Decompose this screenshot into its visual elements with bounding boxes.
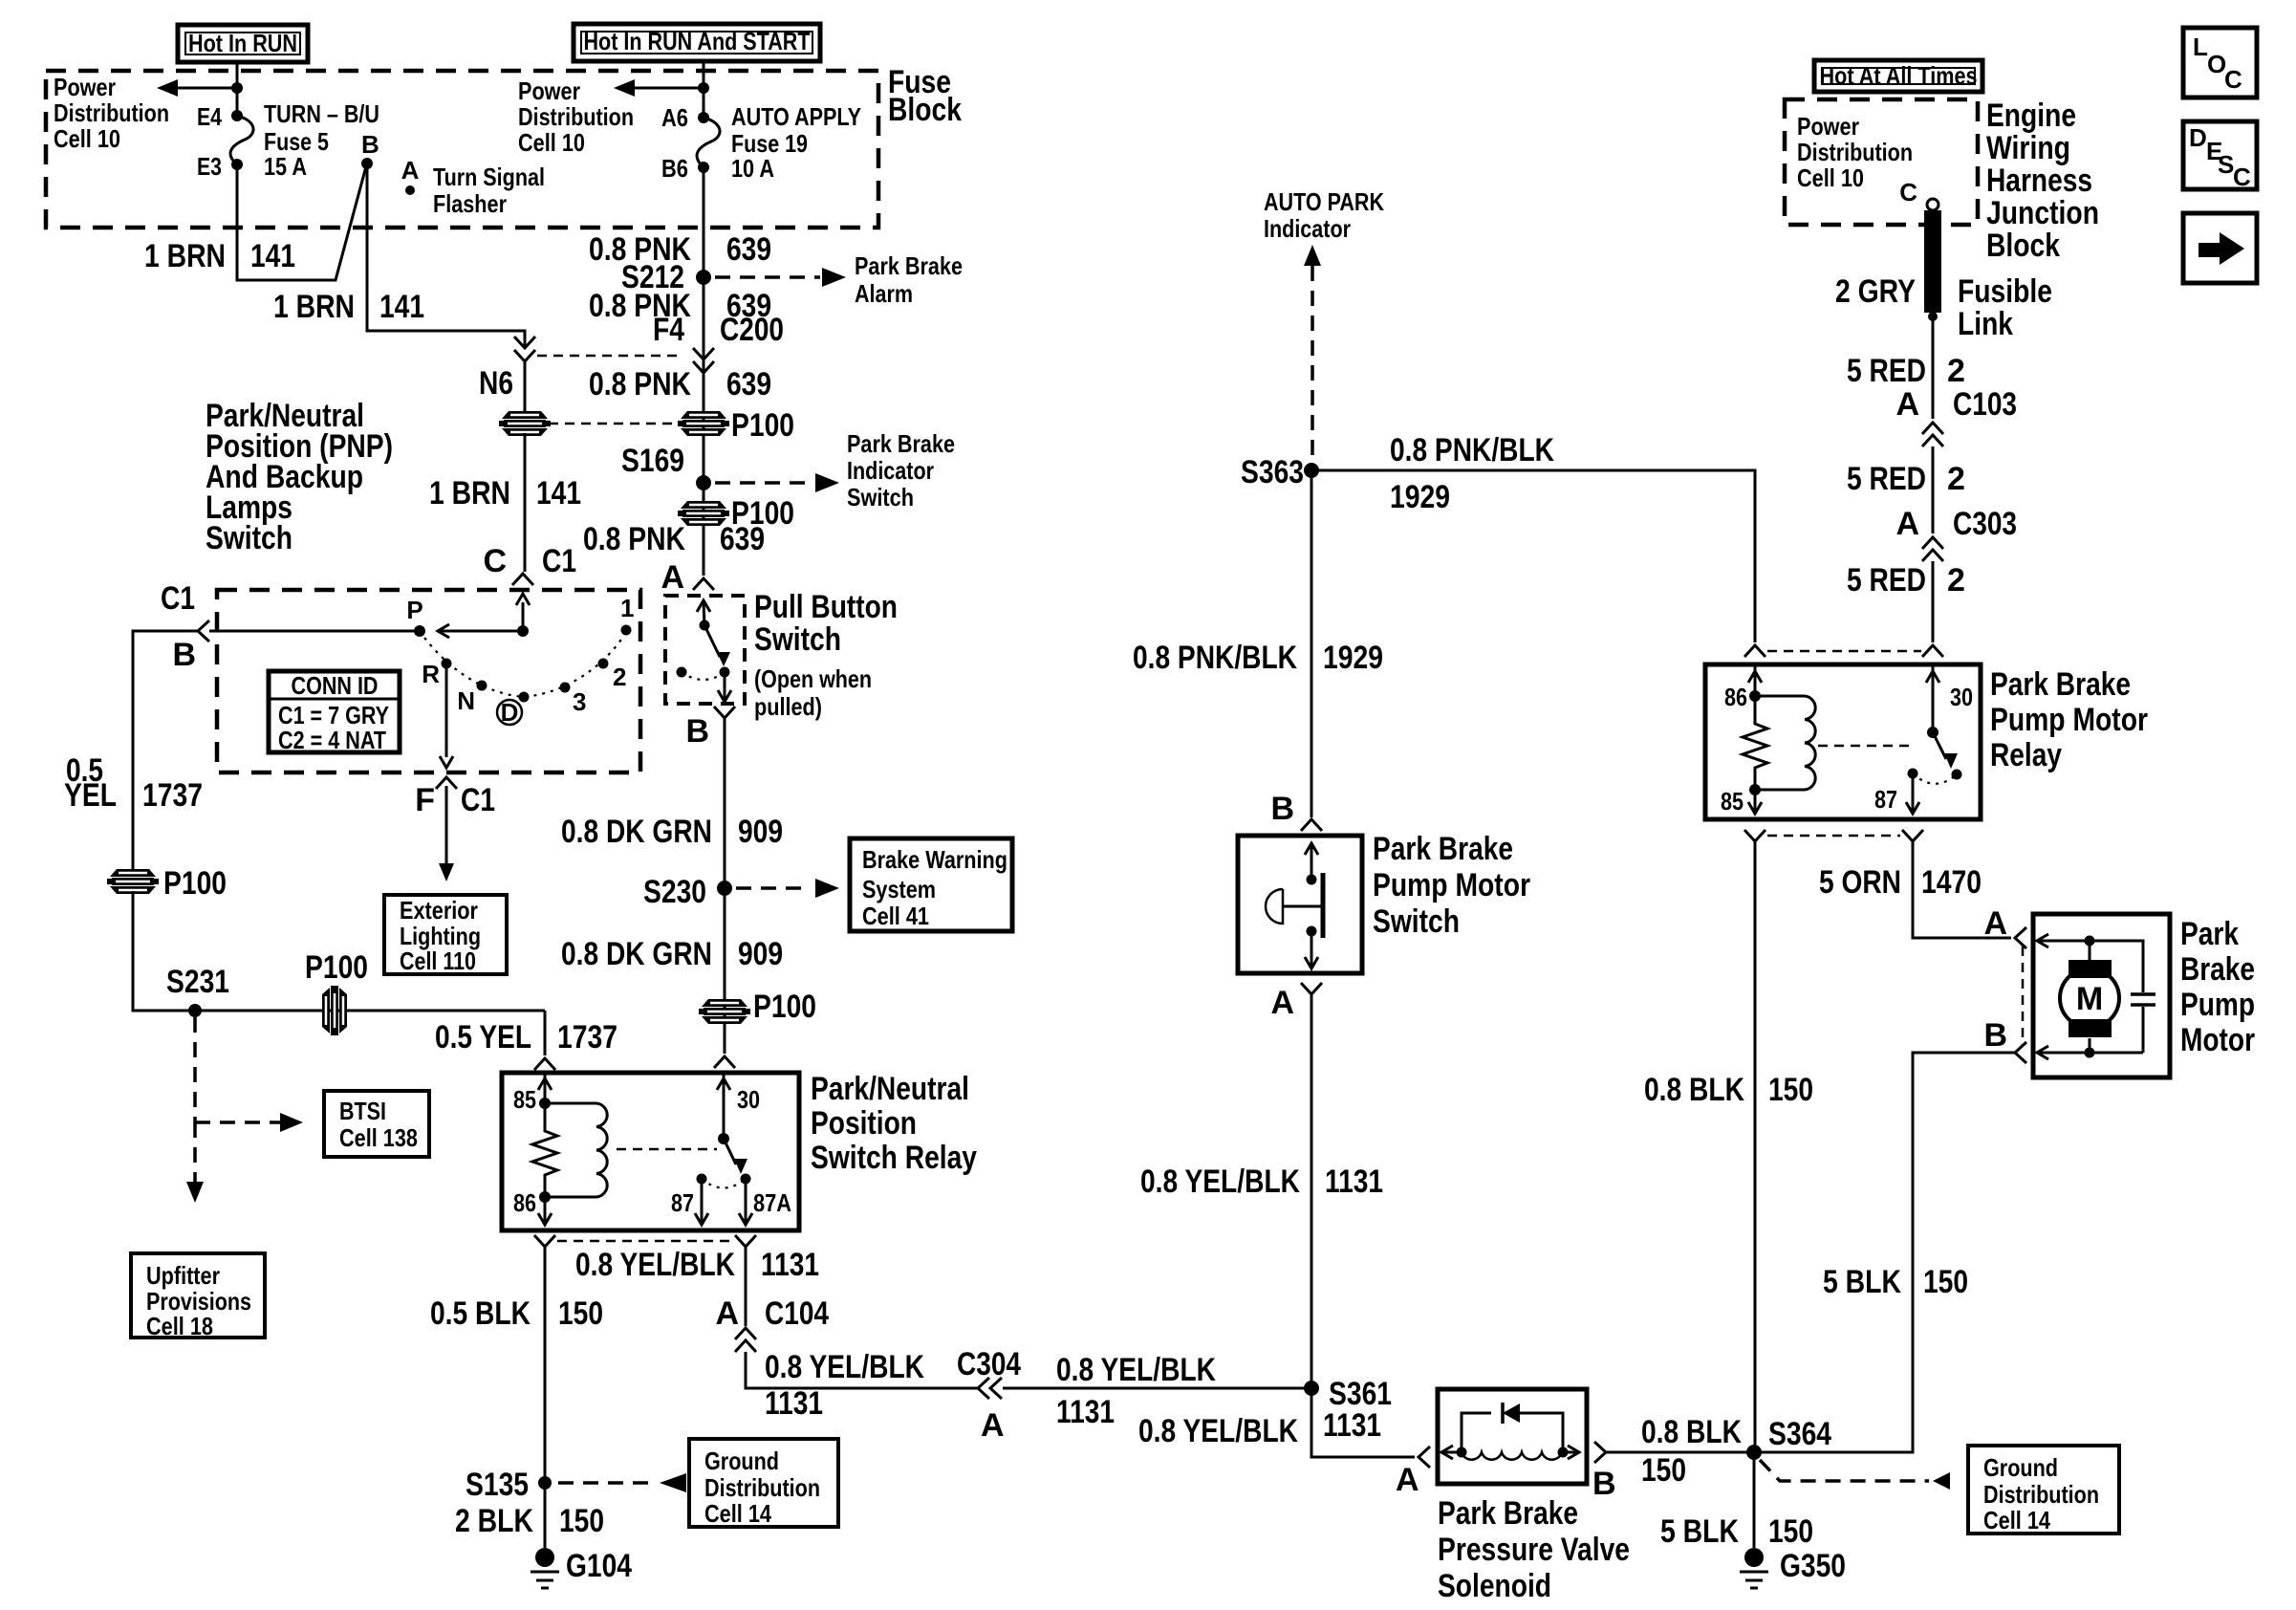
svg-text:5 ORN: 5 ORN	[1819, 864, 1901, 901]
svg-text:1737: 1737	[142, 777, 203, 814]
svg-text:C1: C1	[461, 782, 495, 818]
svg-text:B6: B6	[661, 154, 688, 183]
dashed ref to park brake alarm	[715, 275, 820, 279]
svg-text:10 A: 10 A	[731, 154, 774, 183]
svg-text:85: 85	[513, 1085, 536, 1114]
contact D (circled)	[519, 692, 530, 703]
ground distribution ref box (right)	[1968, 1446, 2119, 1534]
wire 5 RED 2 to C303	[1932, 446, 1935, 533]
splice S230	[717, 881, 732, 896]
svg-text:D: D	[2189, 123, 2207, 152]
fusible link	[1924, 210, 1941, 313]
junction node	[698, 82, 709, 94]
svg-text:Park Brake: Park Brake	[1373, 831, 1513, 867]
Park Brake Pump Motor Relay box	[1705, 664, 1981, 819]
svg-text:C1: C1	[542, 543, 576, 579]
dashed ref from S231	[193, 1017, 197, 1122]
relay input connectors	[1744, 645, 1765, 657]
wire 0.8 DK GRN from pull button B	[724, 719, 726, 1054]
svg-text:0.8 BLK: 0.8 BLK	[1641, 1414, 1742, 1450]
svg-text:Pump Motor: Pump Motor	[1990, 702, 2148, 738]
relay coil	[545, 1103, 596, 1197]
relay contact 87	[1908, 769, 1918, 779]
relay blade	[724, 1139, 736, 1164]
svg-text:86: 86	[513, 1188, 536, 1217]
svg-text:0.8 YEL/BLK: 0.8 YEL/BLK	[575, 1247, 735, 1283]
svg-text:E3: E3	[197, 152, 222, 181]
connector C104	[735, 1328, 756, 1339]
svg-text:0.8 YEL/BLK: 0.8 YEL/BLK	[1138, 1413, 1298, 1449]
svg-text:Cell 14: Cell 14	[1983, 1506, 2050, 1534]
inline connector P100 (horizontal wire)	[322, 988, 330, 1033]
connector B into pump switch	[1301, 819, 1322, 831]
svg-text:1131: 1131	[1323, 1407, 1381, 1444]
contact 2	[598, 659, 609, 669]
svg-text:Distribution: Distribution	[518, 102, 634, 131]
pull button contacts	[704, 602, 704, 625]
wire 0.5 BLK 150 to S135	[544, 1247, 547, 1548]
splice S135	[538, 1476, 552, 1490]
dashed ref to upfitter	[193, 1122, 197, 1182]
svg-text:Switch: Switch	[847, 483, 914, 511]
svg-text:G350: G350	[1780, 1548, 1846, 1584]
svg-text:0.8 PNK/BLK: 0.8 PNK/BLK	[1133, 640, 1297, 676]
svg-text:Block: Block	[1986, 228, 2060, 264]
svg-text:Distribution: Distribution	[1797, 138, 1913, 166]
svg-text:AUTO PARK: AUTO PARK	[1264, 187, 1384, 216]
svg-text:C: C	[2224, 65, 2242, 94]
svg-text:1929: 1929	[1323, 640, 1383, 676]
svg-text:87: 87	[671, 1188, 694, 1217]
wire 0.8 PNK 639 main	[703, 167, 705, 576]
svg-text:0.8 YEL/BLK: 0.8 YEL/BLK	[1140, 1164, 1300, 1200]
LOC box	[2183, 28, 2257, 98]
wire 5 RED 2 to relay 30	[1932, 561, 1935, 642]
svg-text:150: 150	[1641, 1452, 1686, 1489]
svg-text:1 BRN: 1 BRN	[273, 289, 355, 325]
svg-text:0.5 BLK: 0.5 BLK	[430, 1295, 531, 1332]
wire 1 BRN 141 to PNP switch C1	[524, 433, 527, 572]
dashed ref to ground distribution (right)	[1760, 1460, 1929, 1481]
svg-text:Wiring: Wiring	[1986, 130, 2070, 166]
svg-text:5 RED: 5 RED	[1847, 461, 1926, 497]
svg-text:1 BRN: 1 BRN	[144, 238, 226, 274]
svg-text:Ground: Ground	[1983, 1453, 2058, 1482]
pump switch plunger	[1321, 873, 1326, 938]
svg-text:AUTO APPLY: AUTO APPLY	[731, 102, 861, 131]
svg-text:Position: Position	[811, 1105, 917, 1142]
solenoid coil	[1441, 1446, 1453, 1459]
splice S364	[1746, 1445, 1762, 1460]
svg-text:Upfitter: Upfitter	[146, 1261, 220, 1290]
svg-text:909: 909	[738, 814, 783, 850]
svg-text:C103: C103	[1953, 386, 2017, 423]
svg-text:Cell 14: Cell 14	[704, 1499, 771, 1528]
svg-text:0.8 PNK/BLK: 0.8 PNK/BLK	[1390, 432, 1554, 468]
svg-text:Distribution: Distribution	[704, 1473, 820, 1502]
svg-text:(Open when: (Open when	[754, 664, 872, 693]
svg-text:909: 909	[738, 936, 783, 972]
svg-text:0.8 YEL/BLK: 0.8 YEL/BLK	[1056, 1352, 1216, 1388]
off-page arrow to power distribution (right)	[633, 87, 704, 90]
dashed ref to ground distribution (left)	[558, 1481, 656, 1485]
svg-text:1: 1	[620, 594, 634, 622]
label box Hot At All Times	[1814, 60, 1982, 92]
svg-text:5 BLK: 5 BLK	[1660, 1513, 1739, 1550]
relay bottom connectors	[534, 1235, 555, 1247]
svg-text:C: C	[1899, 178, 1917, 207]
upfitter provisions ref box	[131, 1253, 265, 1338]
svg-text:C: C	[2233, 163, 2251, 191]
solenoid B wire 0.8 BLK 150	[1594, 1442, 1606, 1463]
svg-text:0.8 PNK: 0.8 PNK	[583, 521, 685, 557]
wire 0.8 PNK/BLK 1929 (horizontal to relay 86)	[1311, 470, 1755, 642]
svg-text:0.8 DK GRN: 0.8 DK GRN	[561, 936, 712, 972]
svg-text:639: 639	[726, 366, 771, 402]
svg-text:Link: Link	[1958, 306, 2013, 342]
relay contact 87A	[741, 1174, 751, 1185]
PNP entry arrow from C1	[516, 594, 530, 605]
junction node	[231, 82, 243, 94]
svg-text:Hot In RUN: Hot In RUN	[188, 29, 297, 57]
svg-text:B: B	[172, 637, 196, 673]
svg-text:C304: C304	[957, 1346, 1021, 1382]
ground G350	[1744, 1548, 1764, 1567]
pin E4	[231, 110, 243, 121]
svg-text:A: A	[401, 156, 420, 185]
svg-text:0.8 BLK: 0.8 BLK	[1644, 1072, 1744, 1108]
svg-text:G104: G104	[566, 1548, 632, 1584]
relay contact 87	[697, 1174, 707, 1185]
svg-text:B: B	[1592, 1466, 1616, 1502]
wire 0.8 PNK/BLK down to pump switch	[1310, 470, 1313, 817]
svg-text:2: 2	[1947, 461, 1965, 497]
svg-text:150: 150	[1923, 1264, 1968, 1300]
svg-text:Park Brake: Park Brake	[1990, 666, 2131, 703]
contact N	[477, 681, 487, 691]
svg-text:Cell 10: Cell 10	[1797, 163, 1864, 192]
svg-text:141: 141	[250, 238, 295, 274]
splice S169	[696, 475, 711, 490]
svg-text:Park/Neutral: Park/Neutral	[811, 1071, 969, 1107]
splice S231	[188, 1004, 202, 1017]
svg-text:Indicator: Indicator	[1264, 214, 1351, 243]
wire to solenoid A	[1311, 1388, 1415, 1457]
relay blade	[1933, 732, 1946, 759]
dashed ref to park brake indicator switch	[715, 481, 812, 485]
DESC box	[2183, 121, 2257, 189]
PNP switch dashed box	[217, 590, 640, 772]
Park/Neutral Position Switch Relay box	[502, 1073, 799, 1230]
svg-text:0.8 PNK: 0.8 PNK	[589, 366, 691, 402]
svg-text:Cell 110: Cell 110	[400, 946, 476, 975]
svg-text:1 BRN: 1 BRN	[429, 475, 510, 511]
wire 0.8 YEL/BLK 1131 to S361	[1003, 1387, 1311, 1390]
pump switch contacts	[1310, 845, 1313, 880]
svg-text:Cell 41: Cell 41	[862, 902, 929, 930]
junction node	[517, 625, 529, 637]
wire 5 RED 2 to C103	[1932, 317, 1935, 419]
svg-text:1470: 1470	[1921, 864, 1982, 901]
relay bottom connectors	[1744, 830, 1765, 841]
svg-text:R: R	[422, 660, 440, 688]
svg-text:2 GRY: 2 GRY	[1835, 273, 1916, 310]
relay pin 87 wire	[701, 1179, 704, 1223]
grommet P100 (S169 column)	[681, 411, 726, 419]
motor brushes and armature	[2069, 960, 2112, 978]
svg-text:A: A	[1895, 386, 1919, 423]
svg-text:Ground: Ground	[704, 1447, 779, 1475]
svg-text:15 A: 15 A	[264, 152, 307, 181]
wire 0.8 BLK 150 relay 85 to S364	[1754, 841, 1757, 1452]
svg-text:pulled): pulled)	[754, 692, 822, 721]
relay coil-blade dashed link	[1818, 745, 1912, 748]
svg-text:CONN ID: CONN ID	[292, 671, 379, 700]
svg-text:0.8 YEL/BLK: 0.8 YEL/BLK	[765, 1349, 924, 1385]
wire 0.8 YEL/BLK 1131 to S361	[1310, 995, 1313, 1388]
svg-text:B: B	[361, 130, 379, 159]
wire from Hot In RUN And START to fuse 19	[703, 61, 705, 118]
svg-text:141: 141	[536, 475, 581, 511]
svg-text:D: D	[501, 698, 519, 727]
wire from C1 B to P	[209, 630, 420, 633]
Park Brake Pump Motor box	[2033, 914, 2170, 1077]
relay pin 30	[723, 1073, 726, 1139]
svg-text:2 BLK: 2 BLK	[455, 1503, 533, 1539]
wire 0.8 YEL/BLK 1131 to C304	[746, 1352, 978, 1388]
wire 0.5 YEL to P100 grommet (left edge)	[133, 631, 198, 872]
svg-text:Cell 18: Cell 18	[146, 1312, 213, 1340]
svg-text:Cell 10: Cell 10	[54, 124, 120, 153]
dashed ref to brake warning system	[736, 886, 811, 890]
svg-text:Pump Motor: Pump Motor	[1373, 867, 1530, 903]
svg-text:Harness: Harness	[1986, 163, 2092, 199]
connector C1 B (left)	[198, 620, 209, 642]
wire 87A to C104	[745, 1247, 747, 1326]
brake warning system ref box	[850, 838, 1012, 931]
svg-text:E4: E4	[197, 102, 222, 131]
svg-text:Cell 138: Cell 138	[339, 1123, 418, 1152]
svg-text:F4: F4	[653, 312, 684, 348]
connector into relay 30	[714, 1056, 735, 1068]
motor internals	[2037, 934, 2048, 947]
svg-text:C104: C104	[765, 1295, 829, 1332]
relay pin 85	[1749, 784, 1761, 795]
relay pin 85	[544, 1073, 547, 1103]
svg-text:2: 2	[613, 663, 626, 691]
connector C304	[978, 1378, 989, 1399]
wire S364 to G350	[1753, 1452, 1756, 1548]
fuse block dashed box	[46, 71, 878, 228]
svg-text:Block: Block	[888, 92, 962, 128]
splice S361	[1304, 1381, 1319, 1396]
solenoid diode	[1462, 1413, 1563, 1447]
contact 3	[560, 683, 571, 693]
power distribution cell 10 dashed box (right)	[1785, 99, 1978, 225]
svg-text:A: A	[1983, 905, 2007, 942]
svg-text:1131: 1131	[761, 1247, 819, 1283]
svg-text:P100: P100	[163, 865, 227, 902]
fuse 5 TURN-B/U	[230, 116, 253, 164]
svg-text:Hot At All Times: Hot At All Times	[1820, 61, 1978, 90]
svg-text:30: 30	[737, 1085, 760, 1114]
splice S363	[1304, 463, 1319, 478]
svg-text:1131: 1131	[765, 1385, 823, 1422]
svg-text:1131: 1131	[1056, 1394, 1115, 1430]
svg-text:Park Brake: Park Brake	[855, 251, 963, 280]
BTSI ref box	[324, 1091, 429, 1157]
svg-text:Power: Power	[54, 73, 116, 101]
svg-text:Distribution: Distribution	[54, 98, 169, 127]
svg-text:5 BLK: 5 BLK	[1823, 1264, 1901, 1300]
svg-text:S135: S135	[466, 1467, 529, 1503]
label box Hot In RUN And START	[574, 24, 820, 61]
svg-text:C2 = 4 NAT: C2 = 4 NAT	[278, 726, 386, 754]
svg-text:Pull Button: Pull Button	[754, 589, 898, 625]
svg-text:Junction: Junction	[1986, 195, 2099, 231]
wire from Hot In RUN to fuse 5	[236, 63, 239, 116]
connector A below pump switch	[1301, 983, 1322, 994]
svg-text:N6: N6	[479, 365, 513, 402]
svg-text:S363: S363	[1241, 454, 1304, 490]
svg-text:M: M	[2076, 981, 2103, 1017]
contact R	[442, 659, 452, 669]
wire 1 BRN 141 from flasher B down	[367, 163, 525, 346]
svg-text:Pressure Valve: Pressure Valve	[1438, 1532, 1630, 1568]
svg-text:Brake: Brake	[2180, 951, 2255, 988]
svg-text:150: 150	[559, 1503, 604, 1539]
connector C C1 into PNP switch	[512, 574, 533, 585]
label box Hot In RUN	[178, 25, 308, 62]
splice S212	[696, 270, 711, 285]
svg-text:Power: Power	[518, 76, 580, 105]
ground G104	[535, 1548, 554, 1567]
svg-text:3: 3	[573, 687, 586, 716]
svg-text:A: A	[981, 1407, 1005, 1444]
svg-text:639: 639	[726, 231, 771, 268]
svg-text:87A: 87A	[753, 1188, 791, 1217]
relay pin 30	[1932, 664, 1935, 732]
svg-text:Indicator: Indicator	[847, 456, 934, 485]
svg-text:YEL: YEL	[64, 777, 117, 814]
svg-text:B: B	[1983, 1017, 2007, 1054]
wire down to PNP relay 85	[544, 1011, 547, 1055]
svg-text:P100: P100	[731, 407, 794, 444]
arrow box	[2183, 213, 2257, 283]
svg-text:1737: 1737	[557, 1019, 617, 1055]
off-page arrow to power distribution (left)	[176, 87, 237, 90]
PNP rotary contacts arc	[424, 637, 623, 697]
svg-text:30: 30	[1950, 683, 1973, 711]
wire 0.8 PNK to grommet	[524, 361, 527, 414]
grommet P100 (far left)	[110, 869, 156, 877]
connector F C1	[436, 777, 457, 789]
svg-text:Switch: Switch	[1373, 903, 1460, 940]
svg-text:Switch Relay: Switch Relay	[811, 1140, 977, 1176]
svg-text:N: N	[457, 686, 475, 715]
svg-text:639: 639	[720, 521, 765, 557]
Park Brake Pressure Valve Solenoid box	[1438, 1389, 1587, 1484]
svg-text:A: A	[715, 1295, 739, 1332]
svg-text:C200: C200	[720, 312, 784, 348]
grommet P100 (S230 column)	[702, 999, 747, 1007]
wire to exterior lighting	[445, 786, 448, 864]
wire 5 ORN 1470 relay 87 to motor A	[1913, 841, 2011, 938]
connector C200	[693, 348, 714, 359]
svg-text:P100: P100	[753, 989, 816, 1025]
svg-text:150: 150	[558, 1295, 603, 1332]
svg-text:Power: Power	[1797, 112, 1859, 141]
svg-text:Turn Signal: Turn Signal	[433, 163, 545, 191]
svg-text:Relay: Relay	[1990, 737, 2062, 773]
svg-text:5 RED: 5 RED	[1847, 353, 1926, 389]
relay resistor	[1743, 696, 1767, 790]
svg-text:1131: 1131	[1325, 1164, 1383, 1200]
svg-text:P100: P100	[305, 949, 368, 986]
svg-text:BTSI: BTSI	[339, 1097, 386, 1125]
svg-text:1929: 1929	[1390, 479, 1450, 515]
CONN ID table	[269, 671, 400, 752]
svg-text:B: B	[1270, 791, 1294, 827]
svg-text:Distribution: Distribution	[1983, 1480, 2099, 1509]
svg-text:S: S	[2218, 150, 2234, 179]
R arm wire	[445, 664, 448, 757]
svg-text:Park Brake: Park Brake	[847, 429, 955, 458]
svg-text:C: C	[483, 543, 507, 579]
contact 1	[621, 625, 632, 636]
pin A6	[698, 112, 709, 123]
svg-text:Fusible: Fusible	[1958, 273, 2052, 310]
svg-text:S230: S230	[643, 874, 706, 910]
svg-text:TURN – B/U: TURN – B/U	[264, 99, 379, 128]
contact P	[414, 625, 425, 637]
grommet P100 (left)	[502, 411, 548, 419]
svg-text:150: 150	[1768, 1513, 1813, 1550]
svg-text:F: F	[415, 782, 435, 818]
svg-text:C303: C303	[1953, 506, 2017, 542]
svg-text:Pump: Pump	[2180, 987, 2255, 1023]
grommet P100 (second)	[681, 501, 726, 509]
svg-text:85: 85	[1721, 787, 1744, 816]
svg-text:Switch: Switch	[206, 520, 292, 556]
svg-text:Flasher: Flasher	[433, 189, 507, 218]
svg-text:Switch: Switch	[754, 621, 841, 658]
svg-text:Engine: Engine	[1986, 98, 2076, 134]
relay coil	[1755, 696, 1805, 790]
Pull Button Switch dashed box	[665, 596, 745, 704]
relay pin 86	[539, 1191, 551, 1203]
svg-text:Hot In RUN And START: Hot In RUN And START	[584, 27, 811, 55]
ground distribution ref box (left)	[689, 1439, 838, 1527]
svg-text:S364: S364	[1768, 1416, 1831, 1452]
svg-text:Park Brake: Park Brake	[1438, 1495, 1578, 1532]
svg-text:System: System	[862, 875, 936, 903]
Park Brake Pump Motor Switch box	[1238, 836, 1362, 973]
connector B below pull button switch	[714, 707, 735, 718]
svg-text:0.8 DK GRN: 0.8 DK GRN	[561, 814, 712, 850]
fuse 19 AUTO APPLY	[697, 118, 720, 167]
svg-text:L: L	[2193, 33, 2208, 61]
svg-text:A: A	[661, 559, 684, 596]
motor B wire	[2037, 1046, 2048, 1059]
svg-text:Cell 10: Cell 10	[518, 128, 585, 157]
svg-text:86: 86	[1724, 683, 1747, 711]
svg-text:S231: S231	[166, 964, 229, 1000]
svg-text:S169: S169	[621, 443, 684, 479]
svg-text:A6: A6	[661, 103, 688, 132]
svg-text:0.5 YEL: 0.5 YEL	[435, 1019, 531, 1055]
svg-text:Brake Warning: Brake Warning	[862, 845, 1007, 874]
